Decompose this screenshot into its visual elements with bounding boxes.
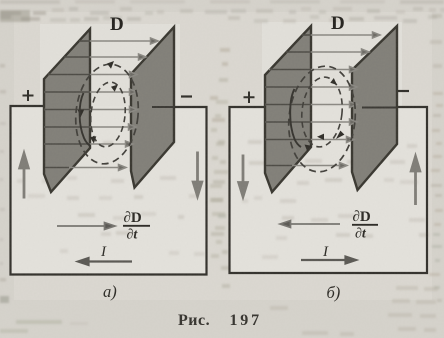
bleed-through noise bottom right <box>270 286 438 336</box>
bleed-through noise left column <box>0 64 88 333</box>
B field dashed inner ellipse b <box>298 75 345 149</box>
bleed-through noise column between diagrams <box>210 48 230 288</box>
wire lead into right plate a <box>152 106 174 108</box>
B solid arc over left plate a <box>80 93 91 146</box>
B arrow inner bottom b <box>317 134 324 140</box>
current arrow up on right wire b <box>411 157 420 206</box>
wire loop right circuit <box>230 107 428 273</box>
wire lead into right plate b <box>362 107 396 109</box>
capacitor left plate b <box>265 26 311 192</box>
capacitor right plate b <box>352 26 397 190</box>
minus terminal a <box>181 95 192 97</box>
B arrow outer right b <box>336 131 344 139</box>
dD/dt arrow a <box>57 223 115 230</box>
B field dashed inner ellipse a <box>88 80 129 148</box>
plus terminal a <box>23 90 34 101</box>
B solid arc over left plate b <box>290 89 301 147</box>
interior bleed-through noise <box>17 100 429 259</box>
B arrow inner top b <box>330 78 337 85</box>
minus terminal b <box>398 90 409 92</box>
label dD/dt a <box>123 210 150 243</box>
bleed-through noise right column <box>429 14 443 302</box>
D field arrows a <box>44 38 158 171</box>
B arrow inner bottom a <box>90 136 96 143</box>
label dD/dt b <box>352 209 378 242</box>
current arrow down on right wire a <box>193 152 202 197</box>
bleed-through text noise top <box>0 0 444 23</box>
current I arrow b <box>301 257 356 264</box>
capacitor left plate a <box>44 29 90 192</box>
B field dashed outer ellipse b <box>284 63 361 175</box>
D field arrows b <box>265 32 380 169</box>
B arrow outer top a <box>107 61 114 69</box>
dD/dt arrow b <box>280 221 340 228</box>
D arrow segments over left plate b <box>265 35 311 166</box>
current arrow up on left wire a <box>20 154 29 199</box>
wire loop left circuit <box>11 106 207 275</box>
B arrow inner top a <box>111 85 118 92</box>
current I arrow a <box>78 258 132 265</box>
B arrow outer bottom left b <box>305 145 312 152</box>
current arrow down on left wire b <box>239 155 248 197</box>
plus terminal b <box>244 92 255 104</box>
B arrow outer left a <box>78 110 84 118</box>
D arrow segments over left plate a <box>44 41 90 168</box>
B field dashed outer ellipse a <box>71 61 143 167</box>
capacitor right plate a <box>131 27 174 188</box>
